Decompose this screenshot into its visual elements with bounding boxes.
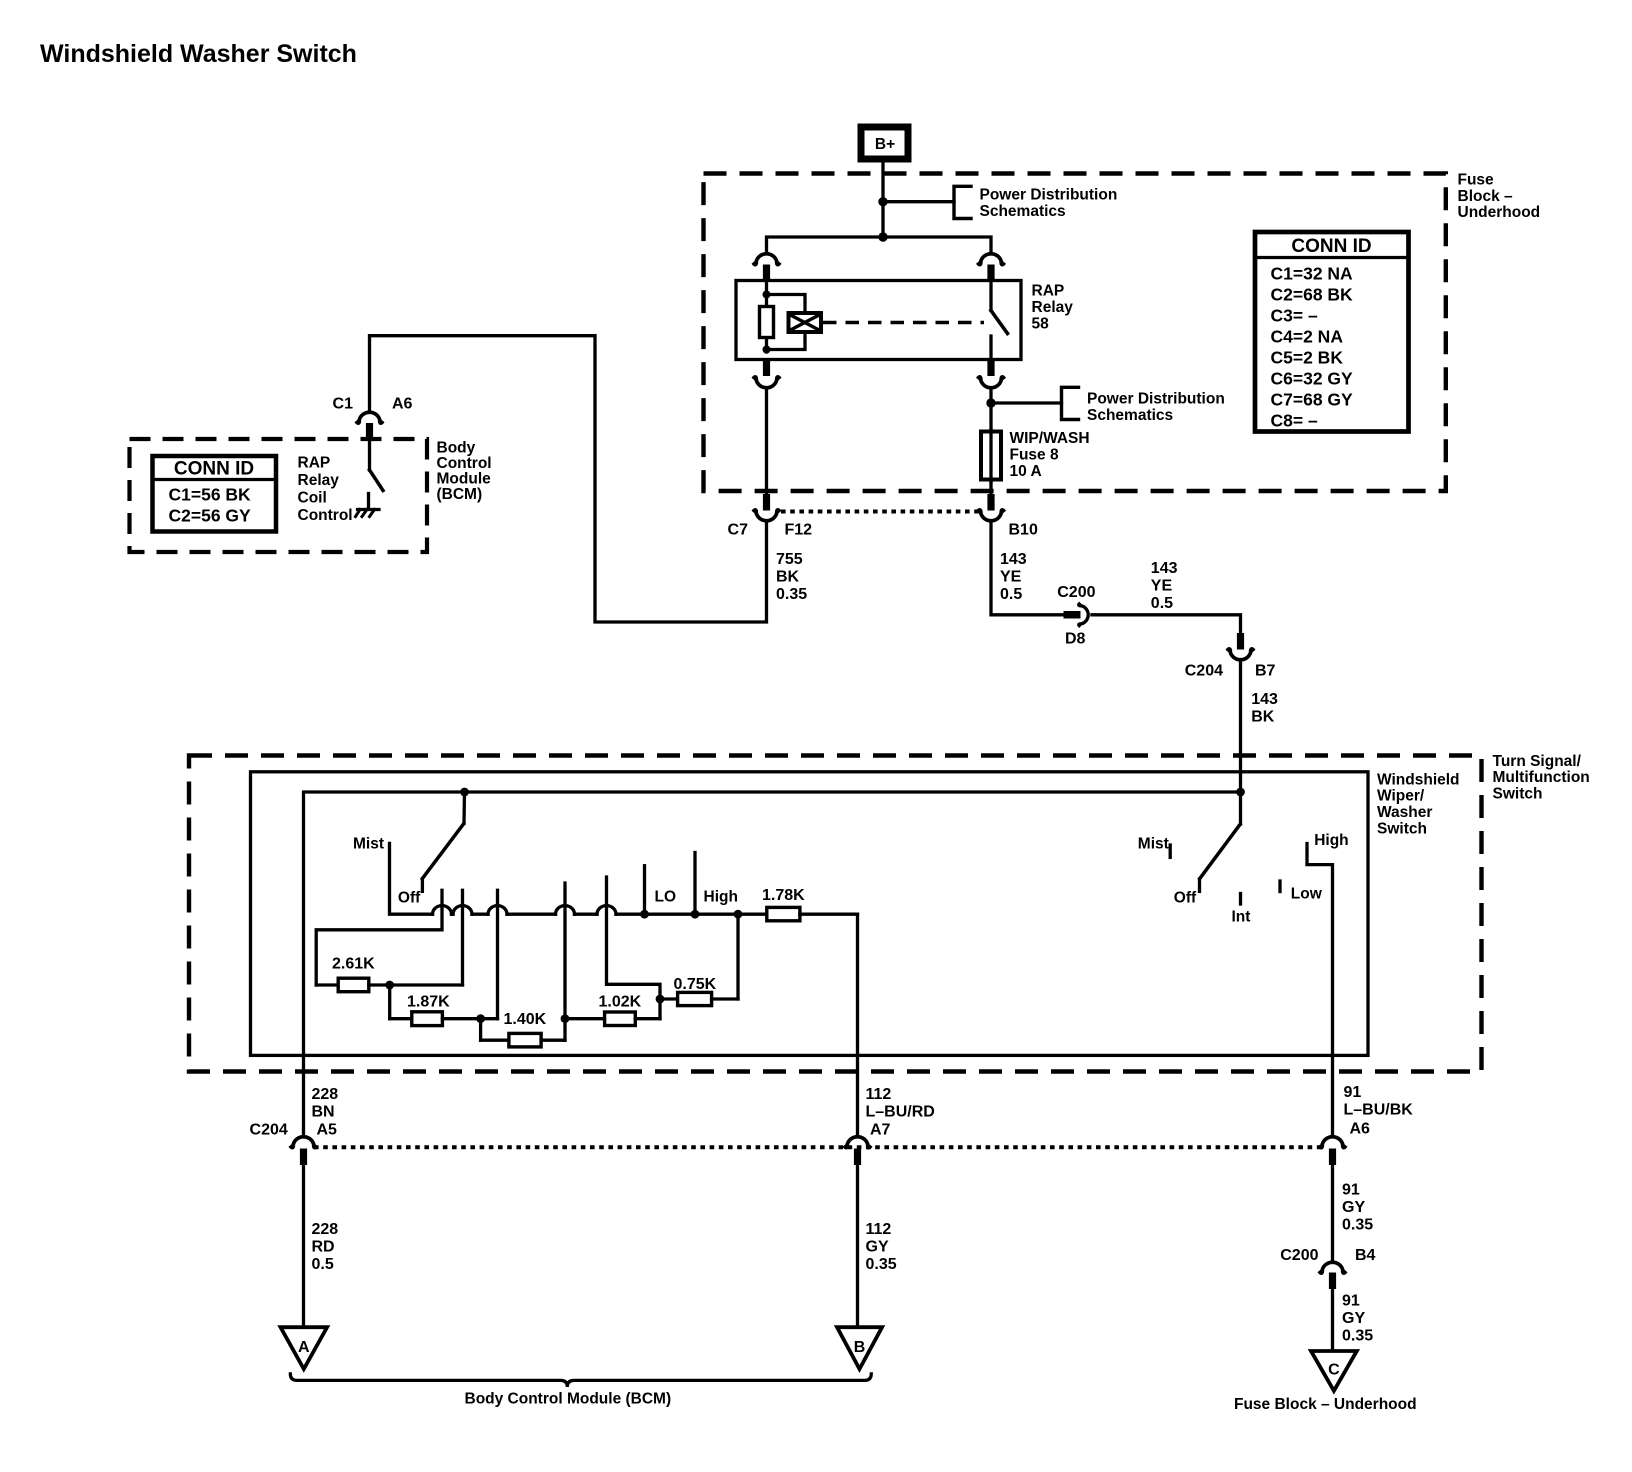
svg-text:Relay: Relay — [298, 472, 340, 489]
svg-text:RAP: RAP — [298, 455, 331, 472]
wire to bracket 2 — [991, 401, 1062, 404]
svg-text:C6=32 GY: C6=32 GY — [1271, 369, 1354, 389]
svg-text:YE: YE — [1000, 569, 1022, 586]
svg-text:(BCM): (BCM) — [437, 486, 483, 503]
wire 1.78K output down — [856, 914, 859, 1134]
label WIP/WASH Fuse 8 10 A — [1010, 430, 1090, 480]
contact stub 2 — [461, 890, 464, 985]
contact Int tick — [1239, 894, 1242, 905]
svg-text:112: 112 — [866, 1086, 892, 1103]
BCM dashed box — [130, 439, 428, 552]
label power distribution schematics top — [980, 187, 1118, 221]
svg-text:C204: C204 — [1185, 663, 1223, 680]
svg-text:Schematics: Schematics — [980, 203, 1066, 220]
node 2.61K junction — [385, 981, 394, 990]
contact Low tick — [1278, 881, 1281, 892]
wire pin2 down to fuse — [989, 389, 992, 431]
svg-text:0.35: 0.35 — [866, 1256, 897, 1273]
svg-text:91: 91 — [1344, 1084, 1362, 1101]
label Windshield Wiper Washer Switch — [1377, 771, 1460, 837]
svg-text:Relay: Relay — [1032, 299, 1074, 316]
svg-text:C204: C204 — [250, 1122, 288, 1139]
svg-text:High: High — [704, 889, 738, 906]
svg-text:0.5: 0.5 — [1151, 595, 1173, 612]
contact stub 4 — [563, 883, 566, 1040]
contact High left — [693, 853, 696, 915]
label RAP Relay Coil Control — [298, 455, 353, 525]
svg-text:BK: BK — [1251, 709, 1275, 726]
svg-text:Switch: Switch — [1377, 821, 1427, 838]
node washer feed — [1236, 788, 1245, 797]
wire label 228 BN — [312, 1086, 339, 1121]
node coil top — [763, 291, 771, 299]
resistor 1.78K — [738, 887, 858, 921]
wire label 143 BK — [1251, 691, 1278, 726]
node 1.87K junction — [476, 1014, 485, 1023]
wire to bracket — [883, 200, 954, 203]
svg-text:YE: YE — [1151, 578, 1173, 595]
connector relay pin 1 bottom — [763, 360, 770, 377]
turn signal multifunction switch dashed box — [189, 756, 1482, 1072]
wire B10 down and right to C200 — [991, 522, 1064, 615]
contact LO — [643, 866, 646, 915]
svg-text:58: 58 — [1032, 315, 1050, 332]
svg-text:WIP/WASH: WIP/WASH — [1010, 430, 1090, 447]
connector alignment dotted line C204 bottom — [314, 1145, 1321, 1149]
node junction to power distribution 2 — [986, 398, 995, 407]
relay coil right branch wire — [767, 295, 806, 350]
svg-text:10 A: 10 A — [1010, 463, 1042, 480]
connector relay pin 2 top — [979, 254, 1004, 265]
wire relay pin1 down to C7 — [765, 389, 768, 495]
node 0.75K junction — [656, 995, 665, 1004]
svg-text:B7: B7 — [1255, 663, 1276, 680]
connector relay pin 1 top — [754, 254, 779, 265]
wire label 143 YE 0.5 right — [1151, 560, 1178, 612]
svg-text:L–BU/RD: L–BU/RD — [866, 1104, 935, 1121]
wiper mist contact wire — [390, 843, 433, 914]
svg-text:C2=56 GY: C2=56 GY — [169, 506, 252, 526]
svg-text:1.02K: 1.02K — [599, 994, 642, 1011]
resistor 2.61K — [316, 956, 462, 992]
node coil bottom — [763, 346, 771, 354]
svg-text:CONN ID: CONN ID — [1291, 236, 1371, 257]
label Fuse Block - Underhood — [1458, 172, 1541, 222]
off-page bracket power distribution top — [954, 186, 971, 218]
svg-text:C1=32 NA: C1=32 NA — [1271, 264, 1354, 284]
svg-text:91: 91 — [1342, 1182, 1360, 1199]
svg-text:B10: B10 — [1009, 522, 1038, 539]
label Turn Signal Multifunction Switch — [1493, 753, 1590, 803]
wire label 91 GY 0.35 upper — [1342, 1182, 1373, 1234]
svg-text:Coil: Coil — [298, 490, 327, 507]
svg-text:BN: BN — [312, 1104, 335, 1121]
svg-text:228: 228 — [312, 1221, 339, 1238]
svg-text:C1: C1 — [333, 396, 354, 413]
svg-text:Washer: Washer — [1377, 804, 1432, 821]
svg-text:1.40K: 1.40K — [504, 1011, 547, 1028]
svg-text:C4=2 NA: C4=2 NA — [1271, 327, 1344, 347]
wire 143 BK down into switch — [1239, 661, 1242, 792]
svg-text:Off: Off — [398, 890, 421, 907]
svg-text:Schematics: Schematics — [1087, 407, 1173, 424]
connector C200 D8 female — [1079, 604, 1089, 626]
svg-text:143: 143 — [1251, 691, 1278, 708]
windshield wiper washer switch solid box — [251, 772, 1369, 1056]
washer blade off contact tick — [1198, 879, 1201, 891]
svg-text:CONN ID: CONN ID — [174, 459, 254, 480]
svg-text:0.5: 0.5 — [1000, 586, 1022, 603]
node bus right junction — [734, 910, 743, 919]
svg-text:C1=56 BK: C1=56 BK — [169, 485, 252, 505]
svg-text:C7: C7 — [728, 522, 749, 539]
wire C7 to BCM — [370, 336, 767, 622]
relay coil left branch wire — [765, 281, 768, 353]
relay switch blade — [991, 311, 1008, 334]
wiper blade off contact tick — [421, 879, 424, 891]
wiper switch blade — [422, 824, 463, 879]
svg-text:GY: GY — [1342, 1199, 1365, 1216]
svg-text:Mist: Mist — [1138, 836, 1169, 853]
wire label 91 L-BU/BK — [1344, 1084, 1414, 1119]
connector relay pin 2 bottom — [987, 360, 994, 377]
wire fuse to B10 — [989, 482, 992, 495]
svg-text:0.35: 0.35 — [776, 586, 807, 603]
svg-text:C200: C200 — [1280, 1247, 1318, 1264]
wire label 112 GY 0.35 — [866, 1221, 897, 1273]
svg-text:L–BU/BK: L–BU/BK — [1344, 1102, 1414, 1119]
svg-text:A7: A7 — [870, 1122, 891, 1139]
contact stub 1 with resistor drop — [316, 890, 442, 985]
brace body control module — [290, 1374, 871, 1387]
svg-text:C200: C200 — [1057, 584, 1095, 601]
CONN ID table fuse block — [1255, 232, 1409, 432]
resistor 0.75K — [660, 914, 738, 1005]
BCM driver switch wire — [368, 440, 371, 471]
connector C200 D8 male blade — [1064, 611, 1081, 619]
washer switch blade stem — [1239, 792, 1242, 824]
svg-text:Fuse 8: Fuse 8 — [1010, 447, 1059, 464]
svg-text:Switch: Switch — [1493, 786, 1543, 803]
BCM driver switch blade — [370, 470, 384, 491]
svg-text:143: 143 — [1151, 560, 1178, 577]
svg-text:1.78K: 1.78K — [762, 887, 805, 904]
svg-text:Block –: Block – — [1458, 188, 1514, 205]
battery B+ — [861, 127, 908, 159]
svg-text:A6: A6 — [392, 396, 413, 413]
terminal triangle A — [281, 1327, 328, 1369]
svg-text:0.35: 0.35 — [1342, 1217, 1373, 1234]
svg-text:BK: BK — [776, 569, 800, 586]
svg-text:A6: A6 — [1350, 1121, 1371, 1138]
svg-text:High: High — [1314, 832, 1348, 849]
wiper switch blade stem — [462, 792, 466, 824]
off-page bracket power distribution 2 — [1062, 387, 1079, 419]
CONN ID table BCM — [153, 456, 277, 532]
fuse WIP/WASH element — [981, 432, 1001, 480]
svg-text:2.61K: 2.61K — [332, 956, 375, 973]
terminal triangle C — [1311, 1351, 1357, 1391]
svg-text:D8: D8 — [1065, 631, 1086, 648]
svg-text:GY: GY — [1342, 1310, 1365, 1327]
node wiper blade A — [460, 788, 469, 797]
label power distribution schematics 2 — [1087, 391, 1225, 425]
svg-text:0.75K: 0.75K — [674, 976, 717, 993]
svg-text:Body Control Module (BCM): Body Control Module (BCM) — [465, 1391, 672, 1408]
svg-text:C: C — [1328, 1362, 1340, 1379]
svg-text:755: 755 — [776, 551, 803, 568]
svg-text:Power Distribution: Power Distribution — [1087, 391, 1225, 408]
svg-text:C7=68 GY: C7=68 GY — [1271, 390, 1354, 410]
svg-text:Windshield: Windshield — [1377, 771, 1460, 788]
wire label 112 L-BU/RD — [866, 1086, 935, 1121]
connector C2 B10 — [987, 494, 994, 511]
relay RAP box — [736, 281, 1021, 360]
node junction to power distribution — [878, 197, 887, 206]
svg-text:B+: B+ — [875, 136, 895, 153]
wire B4 to triangle C — [1331, 1289, 1334, 1351]
svg-text:Int: Int — [1232, 909, 1251, 926]
svg-text:Power Distribution: Power Distribution — [980, 187, 1118, 204]
svg-text:0.35: 0.35 — [1342, 1328, 1373, 1345]
wire relay feed horizontal — [767, 237, 992, 253]
svg-text:Windshield Washer Switch: Windshield Washer Switch — [40, 40, 357, 68]
svg-text:A5: A5 — [317, 1122, 338, 1139]
svg-text:C2=68 BK: C2=68 BK — [1271, 285, 1354, 305]
svg-text:Multifunction: Multifunction — [1493, 769, 1590, 786]
svg-text:Turn Signal/: Turn Signal/ — [1493, 753, 1582, 770]
svg-text:91: 91 — [1342, 1293, 1360, 1310]
svg-text:A: A — [298, 1339, 310, 1356]
svg-text:C8= –: C8= – — [1271, 411, 1318, 431]
wire A7 to BCM B — [856, 1165, 859, 1327]
svg-text:B4: B4 — [1355, 1247, 1376, 1264]
wire label 755 BK 0.35 — [776, 551, 807, 603]
washer High contact wire — [1307, 844, 1333, 1135]
relay switch contact lower — [989, 336, 992, 360]
wire label 143 YE 0.5 left — [1000, 551, 1027, 603]
svg-text:C3= –: C3= – — [1271, 306, 1318, 326]
svg-text:112: 112 — [866, 1221, 892, 1238]
resistor 1.02K — [565, 994, 660, 1026]
svg-text:Off: Off — [1174, 890, 1197, 907]
svg-text:228: 228 — [312, 1086, 339, 1103]
label Body Control Module (BCM) — [437, 440, 492, 504]
resistor coil element — [760, 307, 774, 338]
relay coil X symbol — [789, 313, 822, 332]
svg-text:1.87K: 1.87K — [407, 994, 450, 1011]
washer switch blade — [1200, 825, 1240, 879]
svg-text:GY: GY — [866, 1238, 889, 1255]
BCM ground contact — [356, 494, 380, 517]
svg-text:143: 143 — [1000, 551, 1027, 568]
node 1.02K junction on stub 4 — [561, 1014, 570, 1023]
svg-text:Module: Module — [437, 471, 492, 488]
relay actuation dashed link — [823, 321, 984, 324]
svg-text:Wiper/: Wiper/ — [1377, 788, 1425, 805]
svg-text:F12: F12 — [785, 522, 813, 539]
svg-text:RD: RD — [312, 1238, 335, 1255]
connector C204 B7 — [1237, 633, 1244, 650]
node junction at B+ drop — [878, 232, 887, 241]
bus hops — [433, 906, 452, 915]
contact stub 3 — [496, 890, 499, 1018]
svg-text:Low: Low — [1291, 886, 1323, 903]
wire C200 to C204 — [1092, 615, 1241, 634]
fuse block underhood dashed box — [704, 174, 1446, 492]
resistor 1.40K — [481, 1011, 565, 1047]
connector C7 F12 — [763, 494, 770, 511]
terminal triangle B — [837, 1327, 882, 1369]
wire label 228 RD 0.5 — [312, 1221, 339, 1273]
wire label 91 GY 0.35 lower — [1342, 1293, 1373, 1345]
svg-text:Fuse: Fuse — [1458, 172, 1495, 189]
wire A5 to BCM A — [302, 1165, 305, 1327]
internal feed wire across switch — [304, 792, 1241, 1134]
svg-text:C5=2 BK: C5=2 BK — [1271, 348, 1344, 368]
svg-text:Underhood: Underhood — [1458, 204, 1541, 221]
relay switch contact upper — [989, 281, 992, 311]
wire bus segments between hops — [452, 913, 454, 916]
wire A6 down to C200 B4 — [1331, 1165, 1334, 1260]
wire B+ down — [881, 163, 884, 238]
svg-text:Fuse Block – Underhood: Fuse Block – Underhood — [1234, 1396, 1417, 1413]
resistor 1.87K — [390, 985, 498, 1026]
label RAP Relay 58 — [1032, 282, 1074, 332]
svg-text:Control: Control — [298, 507, 353, 524]
svg-text:Mist: Mist — [353, 836, 384, 853]
svg-text:B: B — [854, 1339, 866, 1356]
svg-text:Control: Control — [437, 455, 492, 472]
svg-text:LO: LO — [655, 889, 677, 906]
svg-text:RAP: RAP — [1032, 282, 1065, 299]
svg-text:0.5: 0.5 — [312, 1256, 334, 1273]
contact stub 5 — [607, 877, 661, 1019]
connector alignment dotted line C7-B10 — [781, 510, 979, 514]
svg-text:Body: Body — [437, 440, 476, 457]
